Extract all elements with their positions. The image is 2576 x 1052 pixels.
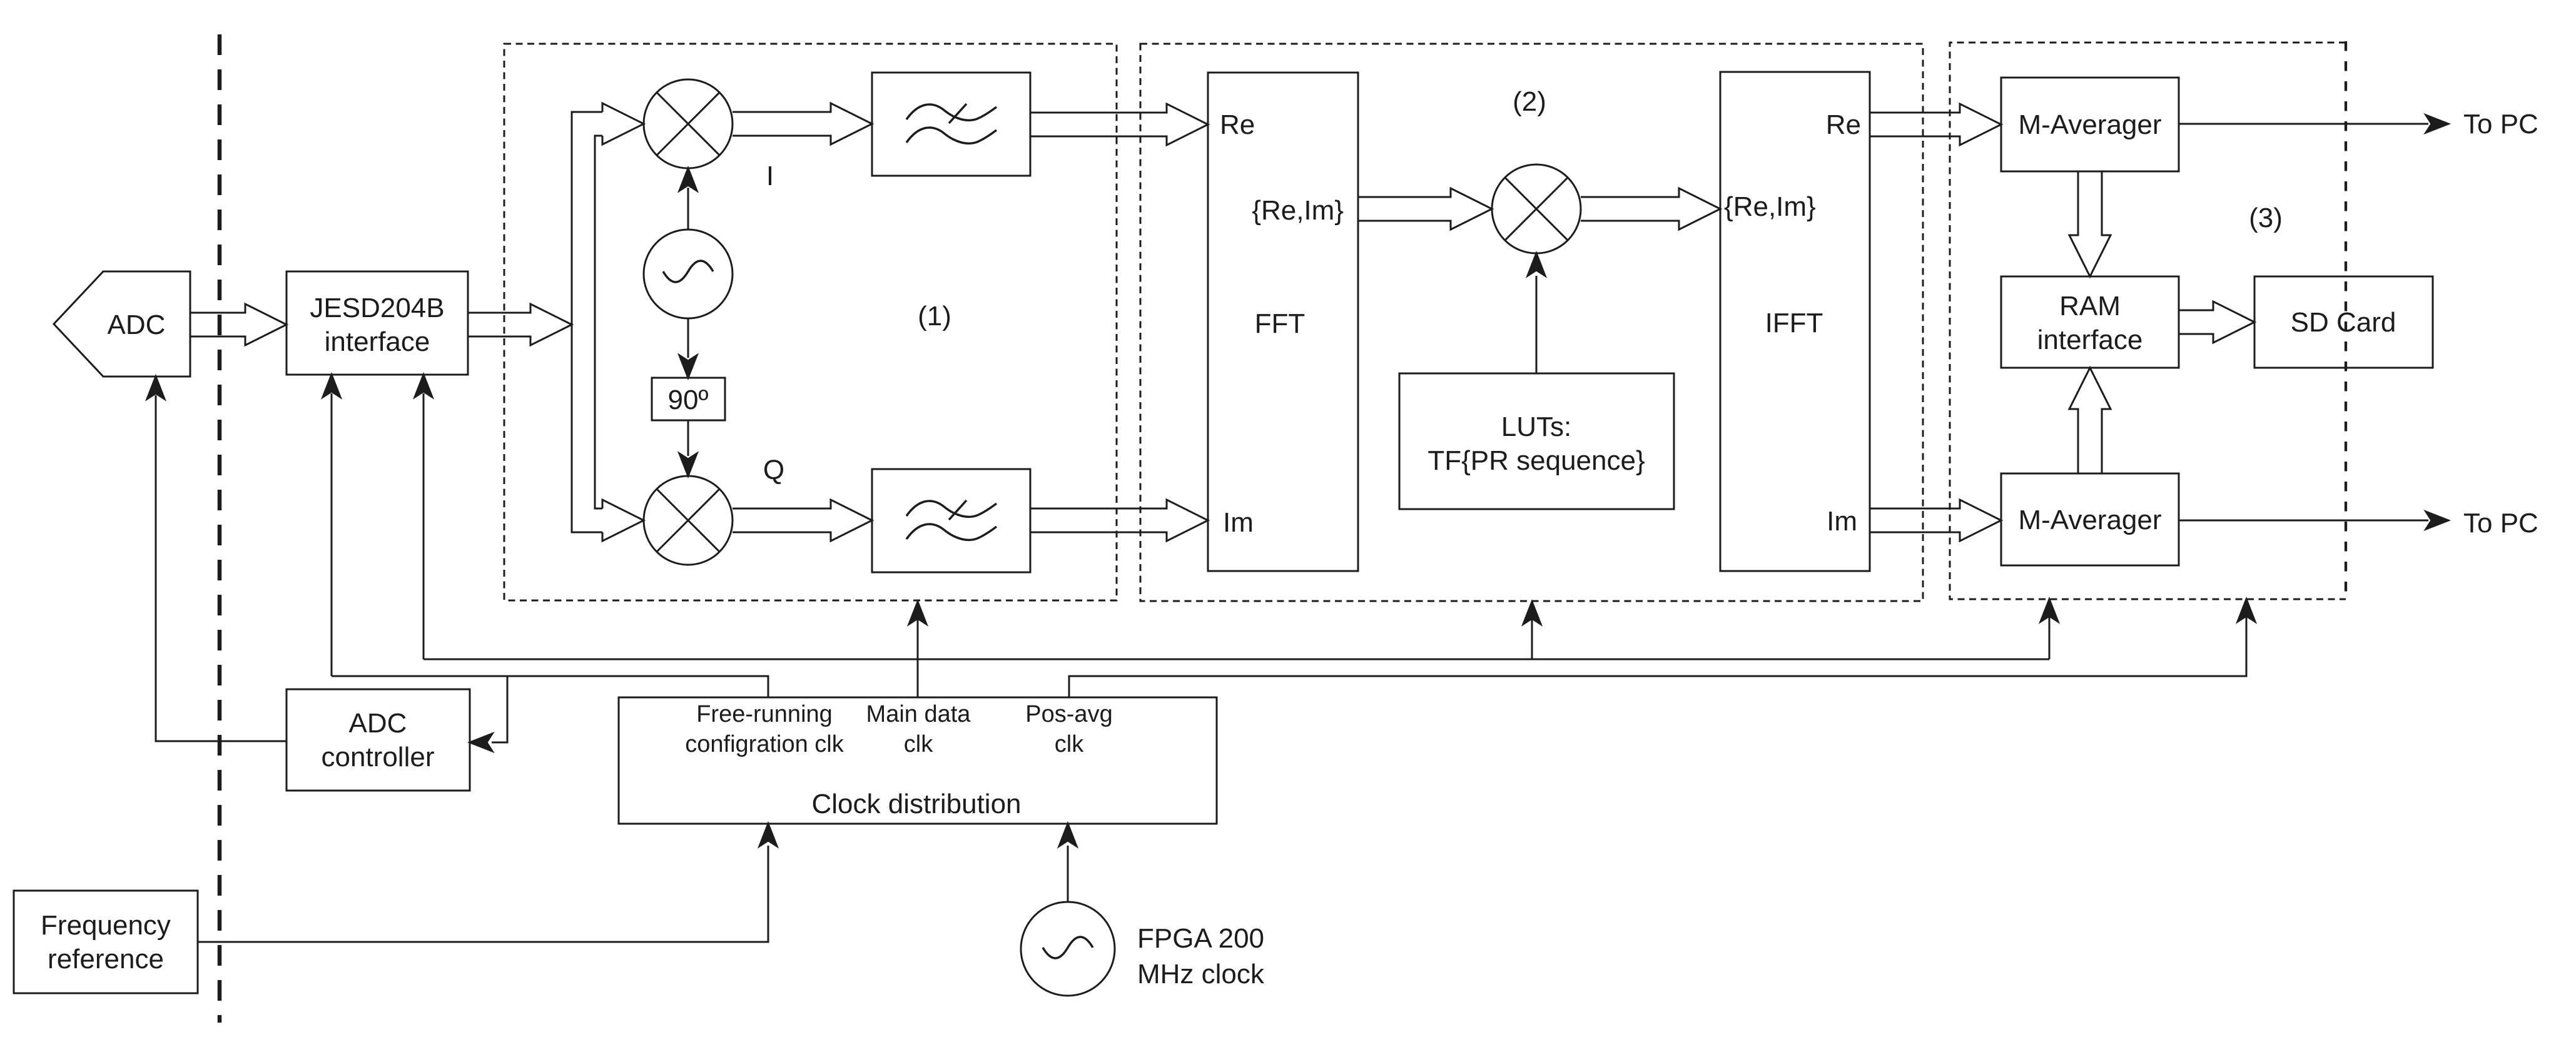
mixer M1 (upper) xyxy=(644,79,733,168)
JESD204B interface block xyxy=(287,271,468,375)
local oscillator OSC xyxy=(644,230,733,318)
free-running configuration clk net: horizontal line from Clock distribution xyxy=(332,676,768,697)
svg-text:To PC: To PC xyxy=(2463,508,2538,539)
svg-text:configration clk: configration clk xyxy=(685,731,844,757)
hollow arrow lower M-Averager up to RAM interface xyxy=(2069,368,2111,473)
open arrowhead bus to mixer M1 xyxy=(602,103,644,144)
arrowhead free-running clk into ADC controller xyxy=(470,734,492,751)
open data arrow ADC to JESD204B xyxy=(190,304,287,345)
ADC controller block xyxy=(287,689,470,791)
svg-text:I: I xyxy=(766,161,774,191)
arrowhead OSC to 90 deg shifter xyxy=(679,355,697,378)
svg-text:SD Card: SD Card xyxy=(2291,307,2396,338)
svg-text:TF{PR sequence}: TF{PR sequence} xyxy=(1427,445,1645,476)
arrowhead main data clk to JESD204B xyxy=(415,375,432,397)
arrowhead main data clk into box (1) xyxy=(909,602,926,624)
filter LPF1 wave symbol xyxy=(906,104,996,120)
filter LPF1 block xyxy=(872,73,1030,176)
svg-text:IFFT: IFFT xyxy=(1765,308,1823,338)
filter LPF2 block xyxy=(872,469,1030,572)
svg-text:controller: controller xyxy=(322,742,435,772)
arrowhead pos-avg clk into box (3) xyxy=(2238,599,2255,622)
RAM interface block xyxy=(2001,276,2179,368)
main data clk wire from Clock distribution up to box (1) xyxy=(917,619,919,697)
open arrowhead bus to mixer M2 xyxy=(602,500,644,541)
FPGA 200 MHz clock source xyxy=(1021,902,1115,996)
Frequency reference block xyxy=(14,891,198,993)
svg-text:{Re,Im}: {Re,Im} xyxy=(1724,191,1816,222)
upper M-Averager block xyxy=(2001,78,2179,171)
svg-text:{Re,Im}: {Re,Im} xyxy=(1252,195,1344,226)
open data arrow M2 to filter LPF2 xyxy=(733,500,872,541)
IFFT block xyxy=(1720,72,1870,571)
IQ bus inner line (right vertical with top/bottom turns) xyxy=(595,136,602,508)
arrowhead LUTs to M3 xyxy=(1528,253,1545,276)
svg-text:Im: Im xyxy=(1223,507,1254,538)
group box (1) dotted xyxy=(504,44,1117,600)
open data arrow IFFT Im to lower M-Averager xyxy=(1870,500,2001,541)
svg-text:Re: Re xyxy=(1220,109,1255,140)
open data arrow FFT to mixer M3 xyxy=(1358,188,1492,230)
free-running clk branch down to ADC controller xyxy=(492,676,507,742)
svg-text:Clock distribution: Clock distribution xyxy=(811,789,1021,819)
svg-text:Pos-avg: Pos-avg xyxy=(1025,701,1112,727)
wire FPGA clock to Clock distribution xyxy=(1067,846,1069,902)
svg-text:Main data: Main data xyxy=(866,701,971,727)
FFT block xyxy=(1208,73,1358,571)
wire OSC to M1 xyxy=(687,188,689,230)
lower M-Averager block xyxy=(2001,473,2179,565)
arrowhead main data clk into box (3) xyxy=(2041,599,2058,622)
wire OSC to 90 deg shifter xyxy=(687,318,689,358)
main data clk wire up into box (2) xyxy=(1531,619,1533,659)
filter LPF2 wave symbol xyxy=(906,501,996,517)
mixer M2 (lower) xyxy=(644,476,733,565)
svg-text:To PC: To PC xyxy=(2463,109,2538,139)
wire lower M-Averager to PC xyxy=(2179,520,2428,522)
svg-text:interface: interface xyxy=(2037,325,2143,355)
arrowhead main data clk into box (2) xyxy=(1523,602,1541,624)
FPGA boundary dashed separator line xyxy=(218,34,222,1023)
svg-text:M-Averager: M-Averager xyxy=(2018,109,2161,140)
group box (3) right edge heavy dashed xyxy=(2345,41,2347,600)
SD Card block xyxy=(2254,276,2433,368)
mixer M3 (multiplier in box 2) xyxy=(1492,164,1581,253)
svg-text:M-Averager: M-Averager xyxy=(2018,505,2161,535)
svg-text:LUTs:: LUTs: xyxy=(1501,412,1571,442)
arrowhead FPGA clock to Clock distribution xyxy=(1059,824,1077,846)
open data arrow LPF1 to FFT Re xyxy=(1030,104,1208,145)
svg-text:RAM: RAM xyxy=(2059,291,2121,321)
group box (2) dotted xyxy=(1140,44,1923,601)
pos-avg clk net: from Clock distribution to box (3) xyxy=(1069,617,2246,697)
main data clk net: horizontal line xyxy=(423,659,2049,660)
open data arrow IFFT Re to upper M-Averager xyxy=(1870,104,2001,145)
svg-text:clk: clk xyxy=(1055,731,1084,757)
arrowhead Frequency reference to Clock distribution xyxy=(759,824,777,846)
svg-text:(2): (2) xyxy=(1513,86,1546,117)
open data arrow RAM interface to SD Card xyxy=(2179,301,2254,343)
svg-text:ADC: ADC xyxy=(349,708,407,739)
open data arrow LPF2 to FFT Im xyxy=(1030,500,1208,541)
svg-text:Im: Im xyxy=(1827,506,1857,537)
svg-text:(1): (1) xyxy=(918,301,951,331)
hollow arrow upper M-Averager down to RAM interface xyxy=(2069,171,2111,276)
arrowhead ADC controller to ADC xyxy=(147,377,165,399)
wire Frequency reference to Clock distribution xyxy=(198,846,768,942)
open data arrow M1 to filter LPF1 xyxy=(733,103,872,144)
svg-text:Frequency: Frequency xyxy=(41,910,171,941)
svg-text:MHz clock: MHz clock xyxy=(1137,959,1265,989)
90 degree phase shifter box xyxy=(652,378,725,420)
Clock distribution block xyxy=(619,697,1217,824)
svg-text:Free-running: Free-running xyxy=(696,701,833,727)
svg-text:JESD204B: JESD204B xyxy=(310,293,444,323)
LUTs block xyxy=(1399,373,1674,509)
wire ADC controller to ADC xyxy=(156,395,287,741)
svg-text:FPGA 200: FPGA 200 xyxy=(1137,923,1264,954)
svg-text:90º: 90º xyxy=(667,385,708,415)
svg-text:(3): (3) xyxy=(2249,203,2283,233)
svg-text:interface: interface xyxy=(325,326,430,357)
arrowhead free-running clk to JESD204B xyxy=(323,375,340,397)
svg-text:ADC: ADC xyxy=(108,310,166,340)
open data arrow M3 to IFFT xyxy=(1581,188,1720,230)
svg-text:Re: Re xyxy=(1826,109,1861,140)
main data clk wire up into box (3) xyxy=(2049,617,2051,659)
free-running clk wire up to JESD204B xyxy=(331,393,333,676)
arrowhead lower To PC xyxy=(2426,512,2448,529)
svg-text:clk: clk xyxy=(904,731,933,757)
wire LUTs to M3 xyxy=(1536,276,1538,373)
svg-text:reference: reference xyxy=(48,944,164,974)
wire 90 deg to M2 xyxy=(687,420,689,456)
open data arrow JESD204B to IQ bus xyxy=(468,304,572,345)
svg-text:Q: Q xyxy=(763,455,784,485)
wire upper M-Averager to PC xyxy=(2179,123,2428,125)
arrowhead upper To PC xyxy=(2426,115,2448,133)
group box (3) dotted xyxy=(1950,43,2346,599)
ADC block (pentagon) xyxy=(54,271,190,377)
arrowhead 90 deg to M2 xyxy=(679,453,697,476)
main data clk wire up to JESD204B xyxy=(423,393,425,659)
IQ bus outer line (left vertical with top/bottom turns) xyxy=(572,112,602,532)
arrowhead OSC to M1 xyxy=(679,168,697,191)
svg-text:FFT: FFT xyxy=(1255,308,1306,339)
